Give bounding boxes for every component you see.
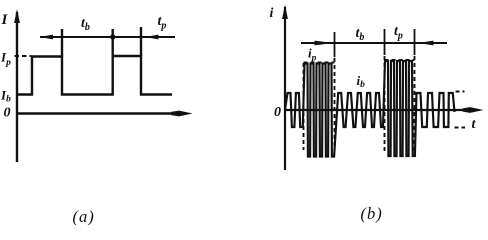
tick at burst1 right edge (b) (334, 32, 336, 57)
left-pointing arrowhead on dimension line (b) (418, 41, 434, 46)
tick at burst2 right edge (b) (414, 29, 416, 55)
x-axis arrowhead (b) (463, 107, 484, 113)
dashed envelope burst1 right edge (334, 58, 336, 152)
dashed envelope burst2 top (385, 59, 415, 61)
x-axis (a) (17, 112, 186, 114)
svg-text:(a): (a) (73, 207, 94, 225)
svg-text:i: i (270, 6, 274, 21)
dashed envelope burst1 top (304, 62, 335, 64)
left arrowhead of dimension line (a) (40, 35, 54, 40)
y-axis arrowhead (a) (14, 9, 20, 23)
mid-right arrowhead of dimension line (a) (145, 35, 159, 40)
tick at burst2 left edge (b) (384, 29, 386, 55)
pulse edge tick at t=141 (extended above pulse top) (140, 27, 142, 56)
RF oscillation waveform (b) (285, 61, 455, 157)
dashed envelope burst2 right edge (414, 56, 416, 152)
y-axis (b) (284, 7, 286, 170)
svg-text:0: 0 (274, 105, 281, 120)
svg-text:0: 0 (4, 106, 11, 121)
pulse edge tick at t=112.7 (extended above pulse top) (111, 29, 113, 56)
pulse edge tick at t=62 (extended above pulse top) (61, 29, 63, 57)
dashed level line I_p (a) (15, 55, 32, 57)
svg-text:(b): (b) (361, 204, 382, 223)
svg-text:I: I (1, 12, 9, 28)
x-axis arrowhead (a) (171, 111, 193, 117)
y-axis (a) (16, 12, 18, 162)
dashed small-signal top level at right end (456, 91, 465, 93)
junction dot on dimension line (a) (110, 34, 115, 39)
y-axis arrowhead (b) (282, 5, 288, 20)
dimension line t_b / t_p (a) (40, 36, 175, 38)
dashed envelope burst2 left edge (384, 56, 386, 152)
dimension line t_b / t_p (b) (301, 42, 447, 44)
dashed envelope burst1 left edge (303, 63, 305, 150)
right-pointing arrowhead on dimension line (b) (315, 41, 334, 46)
x-axis (b) (285, 109, 478, 111)
dashed small-signal bottom level at right end (455, 127, 466, 129)
pulse waveform (a) (18, 56, 173, 95)
